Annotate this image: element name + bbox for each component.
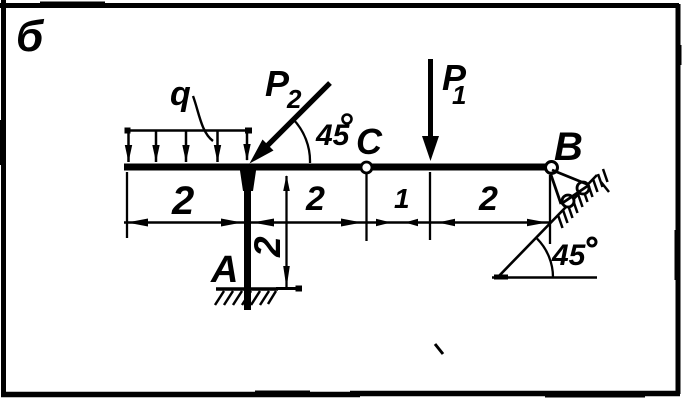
extension line at B <box>549 175 551 244</box>
svg-text:q: q <box>170 75 191 113</box>
dimension arrowheads <box>127 219 547 227</box>
svg-text:2: 2 <box>286 84 302 114</box>
angle arc 45 deg at P2 <box>293 119 310 163</box>
extension line at P1 <box>429 172 431 240</box>
svg-text:1: 1 <box>394 183 410 214</box>
distributed load q: arrows <box>129 131 248 162</box>
force P1 (vertical arrow onto beam) <box>428 59 433 140</box>
node C (hinge circle) <box>361 162 372 173</box>
vertical dimension 2 (beam to ground) <box>285 176 287 287</box>
svg-text:2: 2 <box>478 180 498 218</box>
svg-text:45: 45 <box>551 239 587 272</box>
fixed support A: ground line <box>216 287 278 291</box>
svg-text:б: б <box>16 12 45 61</box>
junction fillet at beam/column <box>239 164 257 191</box>
extension line at C <box>365 174 367 241</box>
svg-text:2: 2 <box>305 180 325 218</box>
roller support bracket at B <box>550 170 589 204</box>
node B (pin circle) <box>546 162 558 174</box>
svg-text:2: 2 <box>247 236 288 258</box>
force P2 (inclined arrow at 45 deg onto junction) <box>263 83 330 150</box>
roller support at B: rollers <box>577 182 589 194</box>
leader line from q to load <box>193 96 213 141</box>
svg-text:A: A <box>210 249 238 291</box>
hatching at A <box>215 291 276 305</box>
horizontal dimension line <box>124 221 551 224</box>
svg-text:C: C <box>356 121 383 162</box>
distributed load q: top line <box>127 129 250 132</box>
beam (horizontal member from left end to B) <box>124 164 548 171</box>
inclined surface at B (45 deg plane) <box>497 175 597 278</box>
svg-text:B: B <box>554 125 583 169</box>
column member (vertical, from beam junction down to support A) <box>244 165 251 310</box>
angle annotation 45 deg at B: horizontal ray <box>492 276 597 278</box>
hatching of inclined surface <box>558 169 609 228</box>
angle arc at B <box>537 239 553 278</box>
stray mark <box>435 344 443 354</box>
svg-text:2: 2 <box>171 179 194 223</box>
svg-text:1: 1 <box>452 80 466 110</box>
extension line at load left end <box>126 172 128 238</box>
